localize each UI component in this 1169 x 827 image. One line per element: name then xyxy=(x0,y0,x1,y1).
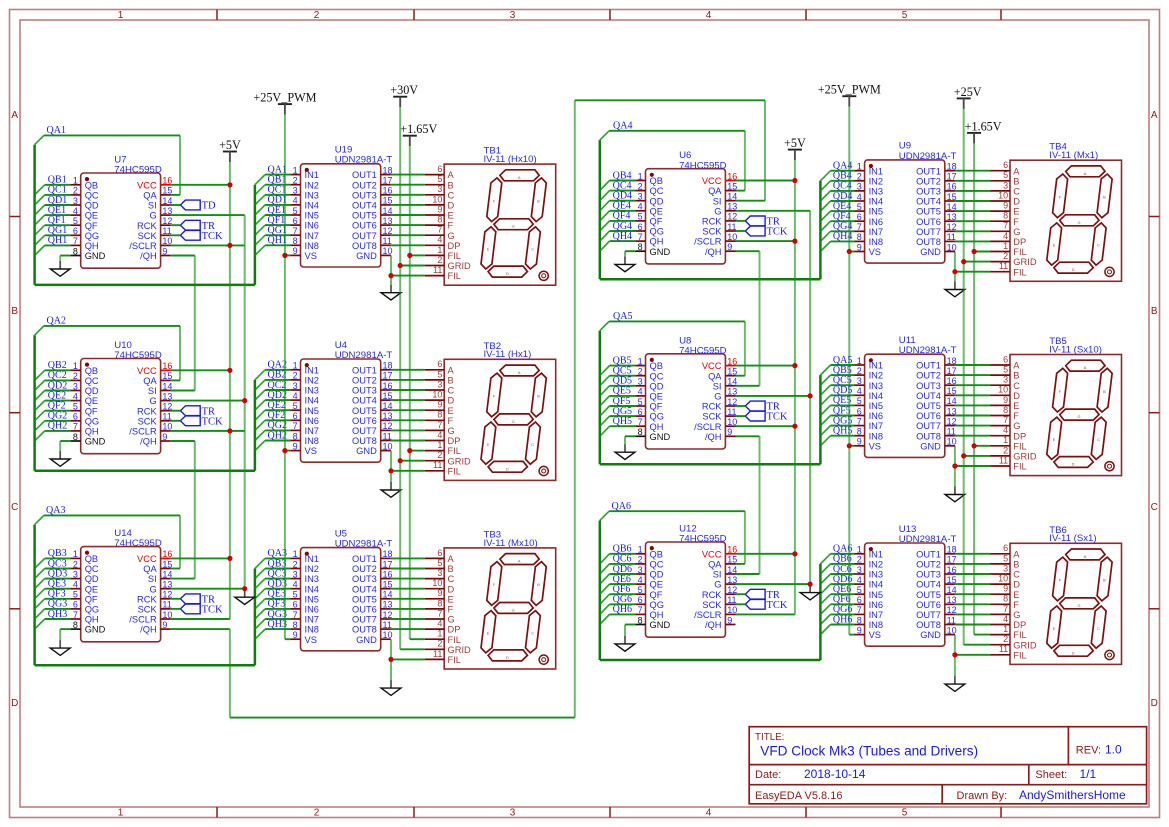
U9 pin names xyxy=(869,166,942,257)
svg-text:FIL: FIL xyxy=(448,466,461,476)
svg-text:DP: DP xyxy=(1013,620,1026,630)
U19 pin numbers xyxy=(293,165,393,256)
svg-text:VS: VS xyxy=(869,441,881,451)
wire U10 RCK to TR flag xyxy=(171,410,181,412)
wire net QE4 to U6 pin 4 xyxy=(600,211,636,221)
svg-text:7: 7 xyxy=(638,232,643,242)
svg-text:7: 7 xyxy=(1003,221,1008,231)
svg-text:+5V: +5V xyxy=(219,138,241,152)
svg-text:6: 6 xyxy=(73,226,78,236)
wire net QG4 to U9 IN7 xyxy=(820,231,854,241)
svg-text:OUT1: OUT1 xyxy=(916,361,941,371)
svg-text:FIL: FIL xyxy=(448,271,461,281)
svg-text:11: 11 xyxy=(383,236,392,246)
VFD tube TB6 IV-11 xyxy=(991,525,1122,665)
junction U12 VCC / +5V xyxy=(792,551,797,556)
svg-text:7: 7 xyxy=(638,417,643,427)
svg-text:QE: QE xyxy=(85,584,98,594)
svg-text:13: 13 xyxy=(727,575,737,585)
TB6 pins xyxy=(991,554,1011,655)
wire U11 OUT5 to TB5 xyxy=(955,404,991,406)
svg-text:7: 7 xyxy=(1003,604,1008,614)
svg-text:C: C xyxy=(448,386,455,396)
svg-text:TD: TD xyxy=(202,201,216,212)
svg-text:11: 11 xyxy=(433,649,442,659)
junction U4 VS / +25V_PWM xyxy=(282,448,287,453)
wire U5 OUT6 to TB3 xyxy=(391,608,425,610)
wire U8 G to G bus xyxy=(736,395,811,397)
svg-text:OUT5: OUT5 xyxy=(916,207,941,217)
svg-text:4: 4 xyxy=(857,386,862,396)
wire U11 OUT8 to TB5 xyxy=(955,435,991,437)
svg-text:IN1: IN1 xyxy=(869,166,883,176)
wire net QC1 to U19 IN3 xyxy=(255,195,291,205)
svg-text:GRID: GRID xyxy=(1013,257,1037,267)
svg-text:74HC595D: 74HC595D xyxy=(679,534,727,545)
svg-text:1: 1 xyxy=(437,245,442,255)
U8 body xyxy=(646,354,726,449)
svg-text:IV-11 (Sx10): IV-11 (Sx10) xyxy=(1049,344,1102,355)
wire net QE5 to U11 IN5 xyxy=(820,405,854,415)
wire TB4 GRID to +25V rail xyxy=(964,261,991,263)
wire net QF5 to U8 pin 5 xyxy=(600,406,636,416)
svg-text:OUT8: OUT8 xyxy=(352,436,377,446)
svg-text:IN5: IN5 xyxy=(305,594,319,604)
svg-text:4: 4 xyxy=(437,619,442,629)
svg-text:16: 16 xyxy=(727,171,737,181)
VFD tube TB2 IV-11 xyxy=(425,341,556,481)
junction U7 /SCLR / +5V xyxy=(227,243,232,248)
svg-text:14: 14 xyxy=(947,202,957,212)
svg-text:4: 4 xyxy=(437,430,442,440)
svg-text:SI: SI xyxy=(148,574,157,584)
svg-text:10: 10 xyxy=(162,610,172,620)
U12 pin names xyxy=(650,549,723,630)
U5 body xyxy=(301,548,381,651)
wire U8 SCK to TCK flag xyxy=(736,415,746,417)
wire net QA3 loop (label to QA pin, left bus, bottom run, fan riser) xyxy=(35,515,255,665)
junction U11 VS / +25V_PWM xyxy=(847,443,852,448)
net flag TCK at U6 SCK xyxy=(745,226,788,238)
svg-text:IN3: IN3 xyxy=(305,190,319,200)
wire U19 OUT1 to TB1 xyxy=(391,174,425,176)
junction TB2 FIL(11) / GND chain xyxy=(388,468,393,473)
TB4 pin numbers xyxy=(998,160,1008,271)
wire TB3 GRID to +30V rail xyxy=(400,648,425,650)
wire U11 OUT1 to TB5 xyxy=(955,364,991,366)
svg-text:8: 8 xyxy=(1003,405,1008,415)
U11 body xyxy=(865,354,945,457)
svg-text:IN2: IN2 xyxy=(869,560,883,570)
svg-text:7: 7 xyxy=(857,605,862,615)
TB5 seven-segment digit xyxy=(1047,360,1114,471)
svg-text:VCC: VCC xyxy=(702,176,722,186)
svg-text:OUT7: OUT7 xyxy=(916,227,941,237)
TB5 pin numbers xyxy=(998,354,1008,465)
svg-text:VS: VS xyxy=(305,635,317,645)
svg-text:QD: QD xyxy=(650,570,664,580)
svg-text:GND: GND xyxy=(920,630,941,640)
svg-text:F: F xyxy=(1013,411,1019,421)
svg-text:OUT8: OUT8 xyxy=(916,620,941,630)
wire net QD6 to U13 IN4 xyxy=(820,584,854,594)
wire net QD2 to U4 IN4 xyxy=(255,400,291,410)
svg-text:5: 5 xyxy=(293,401,298,411)
svg-text:15: 15 xyxy=(162,559,172,569)
wire net QA5 loop (label to QA pin, left bus, bottom run, fan riser) xyxy=(600,321,821,464)
ground at U19 GND xyxy=(381,276,401,300)
wire net QF2 to U4 IN6 xyxy=(255,420,291,430)
svg-text:IN1: IN1 xyxy=(305,170,319,180)
wire U11 OUT2 to TB5 xyxy=(955,374,991,376)
junction U7 VCC / +5V xyxy=(227,182,232,187)
svg-text:7: 7 xyxy=(293,421,298,431)
wire G bus vertical L xyxy=(244,215,246,589)
wire net QD4 to U6 pin 3 xyxy=(600,201,636,211)
svg-text:4: 4 xyxy=(293,391,298,401)
svg-text:10: 10 xyxy=(727,605,737,615)
svg-text:E: E xyxy=(487,442,490,447)
svg-text:QG: QG xyxy=(85,605,99,615)
svg-text:2: 2 xyxy=(1003,251,1008,261)
svg-text:SI: SI xyxy=(713,196,722,206)
wire U13 OUT3 to TB6 xyxy=(955,573,991,575)
wire net QF3 to U5 IN6 xyxy=(255,609,291,619)
svg-text:12: 12 xyxy=(947,416,957,426)
svg-text:C: C xyxy=(11,502,18,513)
svg-text:74HC595D: 74HC595D xyxy=(114,350,162,361)
wire TB6 GRID to +25V rail xyxy=(964,644,991,646)
svg-text:2: 2 xyxy=(857,555,862,565)
svg-text:C: C xyxy=(1097,626,1100,631)
svg-text:3: 3 xyxy=(510,10,516,21)
svg-text:QA: QA xyxy=(708,560,722,570)
svg-text:9: 9 xyxy=(1003,395,1008,405)
svg-text:B: B xyxy=(1103,578,1106,583)
svg-text:F: F xyxy=(1013,217,1019,227)
wire net QC2 to U10 pin 2 xyxy=(35,380,71,390)
svg-text:11: 11 xyxy=(162,600,171,610)
svg-text:G: G xyxy=(512,224,515,229)
wire U10 G to G bus xyxy=(171,400,245,402)
U14 pins xyxy=(71,558,171,629)
U6 pins xyxy=(635,181,735,252)
svg-text:FIL: FIL xyxy=(448,251,461,261)
svg-text:14: 14 xyxy=(383,206,393,216)
svg-text:QA: QA xyxy=(143,376,157,386)
wire U9 OUT1 to TB4 xyxy=(955,170,991,172)
svg-text:2: 2 xyxy=(1003,634,1008,644)
wire U5 GND to TB3 FIL(11) and ground xyxy=(391,639,425,660)
ground at U12 GND xyxy=(615,625,635,652)
U8 pins xyxy=(635,366,735,437)
wire U13 OUT5 to TB6 xyxy=(955,593,991,595)
svg-text:E: E xyxy=(448,594,454,604)
svg-text:10: 10 xyxy=(727,232,737,242)
svg-text:2: 2 xyxy=(293,559,298,569)
TB6 pin numbers xyxy=(998,543,1008,654)
svg-text:1: 1 xyxy=(1003,435,1008,445)
wire U10 /QH to U14 SI xyxy=(171,441,195,579)
svg-text:Drawn By:: Drawn By: xyxy=(957,790,1008,802)
svg-text:9: 9 xyxy=(857,242,862,252)
svg-text:6: 6 xyxy=(293,216,298,226)
wire net QH3 to U14 pin 7 xyxy=(35,619,71,629)
IC U10 74HC595D shift register xyxy=(71,340,173,454)
junction U6 /SCLR / +5V xyxy=(792,239,797,244)
wire U19 OUT7 to TB1 xyxy=(391,234,425,236)
svg-text:13: 13 xyxy=(383,216,393,226)
wire TB5 FIL(1) to +1.65V rail xyxy=(974,445,990,447)
svg-text:9: 9 xyxy=(857,625,862,635)
svg-text:E: E xyxy=(487,630,490,635)
junction TB2 FIL / +1.65V xyxy=(407,448,412,453)
svg-text:FIL: FIL xyxy=(1013,630,1026,640)
svg-text:B: B xyxy=(1103,389,1106,394)
svg-text:1: 1 xyxy=(73,361,78,371)
U4 pin names xyxy=(305,365,378,456)
svg-text:D: D xyxy=(1013,580,1020,590)
svg-text:3: 3 xyxy=(437,184,442,194)
svg-text:5: 5 xyxy=(857,396,862,406)
svg-text:11: 11 xyxy=(433,460,442,470)
wire net QG6 to U13 IN7 xyxy=(820,614,854,624)
wire net QE6 to U13 IN5 xyxy=(820,594,854,604)
wire U11 GND to TB5 FIL(11) and ground xyxy=(955,446,991,467)
svg-text:E: E xyxy=(1013,207,1019,217)
svg-text:B: B xyxy=(1151,306,1158,317)
svg-text:8: 8 xyxy=(638,615,643,625)
wire U19 VS to +25V_PWM rail xyxy=(285,254,291,256)
wire net QF1 to U7 pin 5 xyxy=(35,225,71,235)
svg-text:C: C xyxy=(531,247,534,252)
wire net QD5 to U11 IN4 xyxy=(820,395,854,405)
U4 body xyxy=(301,359,381,462)
svg-text:OUT3: OUT3 xyxy=(352,386,377,396)
svg-text:QH: QH xyxy=(650,422,664,432)
wire TB4 FIL(1) to +1.65V rail xyxy=(974,251,990,253)
svg-text:1: 1 xyxy=(1003,241,1008,251)
svg-text:A: A xyxy=(1084,365,1087,370)
wire U14 /QH to U6 SI (long route) xyxy=(171,100,765,717)
svg-text:RCK: RCK xyxy=(702,217,722,227)
svg-text:D: D xyxy=(448,396,455,406)
svg-text:16: 16 xyxy=(162,361,172,371)
svg-text:OUT6: OUT6 xyxy=(916,411,941,421)
svg-text:VS: VS xyxy=(869,247,881,257)
wire net QD5 to U8 pin 3 xyxy=(600,386,636,396)
svg-text:RCK: RCK xyxy=(137,594,157,604)
wire U5 OUT2 to TB3 xyxy=(391,568,425,570)
svg-text:74HC595D: 74HC595D xyxy=(114,538,162,549)
ground at U11 GND xyxy=(945,466,965,502)
svg-text:OUT7: OUT7 xyxy=(352,426,377,436)
svg-text:11: 11 xyxy=(999,261,1008,271)
svg-text:12: 12 xyxy=(947,222,957,232)
svg-text:IN5: IN5 xyxy=(869,401,883,411)
svg-text:2018-10-14: 2018-10-14 xyxy=(804,767,866,781)
junction TB5 GRID rail xyxy=(961,453,966,458)
svg-text:10: 10 xyxy=(162,422,172,432)
wire net QA6 loop (label to QA pin, left bus, bottom run, fan riser) xyxy=(600,511,821,660)
svg-text:QD: QD xyxy=(650,196,664,206)
TB4 pin names xyxy=(1013,166,1037,277)
svg-text:E: E xyxy=(448,211,454,221)
wire net QF6 to U12 pin 5 xyxy=(600,594,636,604)
svg-text:6: 6 xyxy=(437,548,442,558)
svg-text:GND: GND xyxy=(356,635,377,645)
U9 body xyxy=(865,160,945,263)
svg-text:FIL: FIL xyxy=(1013,462,1026,472)
+25V_PWM power rail R xyxy=(848,107,850,635)
svg-text:OUT8: OUT8 xyxy=(352,625,377,635)
wire U12 GND pin to ground xyxy=(625,624,635,626)
wire U4 OUT1 to TB2 xyxy=(391,369,425,371)
IC U8 74HC595D shift register xyxy=(635,335,737,449)
wire net QB1 to U19 IN2 xyxy=(255,185,291,195)
svg-text:A: A xyxy=(448,554,455,564)
IC U7 74HC595D shift register xyxy=(71,155,173,269)
svg-text:IN4: IN4 xyxy=(869,391,883,401)
wire TB6 FIL(1) to +1.65V rail xyxy=(974,634,990,636)
svg-text:4: 4 xyxy=(1003,231,1008,241)
U11 pin names xyxy=(869,361,942,452)
svg-text:4: 4 xyxy=(73,391,78,401)
svg-text:OUT4: OUT4 xyxy=(916,391,941,401)
svg-text:+25V: +25V xyxy=(954,85,982,99)
svg-text:9: 9 xyxy=(1003,201,1008,211)
svg-text:B: B xyxy=(448,564,454,574)
svg-text:8: 8 xyxy=(857,427,862,437)
svg-text:OUT2: OUT2 xyxy=(916,176,941,186)
svg-text:15: 15 xyxy=(727,555,737,565)
wire net QB2 to U10 pin 1 xyxy=(35,370,71,380)
svg-text:8: 8 xyxy=(73,620,78,630)
wire net QB3 to U5 IN2 xyxy=(255,569,291,579)
power flag +30V xyxy=(390,83,418,107)
TB5 pin names xyxy=(1013,361,1037,472)
svg-text:IN7: IN7 xyxy=(869,227,883,237)
svg-text:OUT5: OUT5 xyxy=(352,406,377,416)
svg-text:C: C xyxy=(448,574,455,584)
svg-text:E: E xyxy=(448,406,454,416)
svg-text:1: 1 xyxy=(118,808,124,819)
VFD tube TB5 IV-11 xyxy=(991,336,1122,476)
svg-text:6: 6 xyxy=(293,411,298,421)
svg-text:C: C xyxy=(1097,243,1100,248)
svg-text:SCK: SCK xyxy=(138,231,158,241)
svg-text:QE: QE xyxy=(650,206,663,216)
svg-text:VCC: VCC xyxy=(702,549,722,559)
svg-text:74HC595D: 74HC595D xyxy=(114,165,162,176)
svg-text:TCK: TCK xyxy=(767,600,788,611)
svg-text:GND: GND xyxy=(356,446,377,456)
svg-text:6: 6 xyxy=(857,595,862,605)
wire net QG2 to U10 pin 6 xyxy=(35,421,71,431)
svg-text:QF: QF xyxy=(85,594,98,604)
svg-text:IN8: IN8 xyxy=(305,436,319,446)
svg-text:5: 5 xyxy=(1003,365,1008,375)
svg-text:QA: QA xyxy=(708,186,722,196)
svg-text:4: 4 xyxy=(293,196,298,206)
svg-text:OUT3: OUT3 xyxy=(916,187,941,197)
svg-text:3: 3 xyxy=(638,565,643,575)
wire U13 OUT4 to TB6 xyxy=(955,583,991,585)
svg-text:QA6: QA6 xyxy=(612,501,631,512)
svg-text:IN3: IN3 xyxy=(869,187,883,197)
wire U11 OUT7 to TB5 xyxy=(955,425,991,427)
svg-text:11: 11 xyxy=(383,620,392,630)
svg-text:D: D xyxy=(506,271,509,276)
wire net QH6 to U12 pin 7 xyxy=(600,614,636,624)
wire net QB5 to U11 IN2 xyxy=(820,375,854,385)
svg-text:16: 16 xyxy=(727,545,737,555)
svg-text:E: E xyxy=(487,247,490,252)
svg-text:10: 10 xyxy=(947,625,957,635)
svg-text:17: 17 xyxy=(383,371,393,381)
TB3 body xyxy=(444,548,556,669)
svg-text:10: 10 xyxy=(432,194,442,204)
junction TB5 FIL(11) / GND chain xyxy=(952,463,957,468)
svg-text:5: 5 xyxy=(638,397,643,407)
svg-text:A: A xyxy=(1013,549,1020,559)
svg-text:VCC: VCC xyxy=(137,366,157,376)
svg-text:8: 8 xyxy=(638,427,643,437)
svg-text:B: B xyxy=(537,198,540,203)
wire net QB5 to U8 pin 1 xyxy=(600,366,636,376)
wire net QD6 to U12 pin 3 xyxy=(600,574,636,584)
svg-text:13: 13 xyxy=(947,212,957,222)
power flag +5V xyxy=(784,136,806,160)
svg-text:IN4: IN4 xyxy=(869,580,883,590)
svg-text:OUT3: OUT3 xyxy=(352,574,377,584)
svg-text:B: B xyxy=(537,582,540,587)
junction U14 G / G bus xyxy=(242,586,247,591)
svg-text:IN6: IN6 xyxy=(305,605,319,615)
U13 pins xyxy=(855,554,955,635)
svg-text:QB: QB xyxy=(85,180,98,190)
svg-text:UDN2981A-T: UDN2981A-T xyxy=(335,539,393,550)
svg-text:3: 3 xyxy=(73,569,78,579)
svg-text:9: 9 xyxy=(437,588,442,598)
IC U9 UDN2981A-T driver xyxy=(855,141,957,263)
svg-text:QB: QB xyxy=(650,549,663,559)
wire U10 GND pin to ground xyxy=(60,440,70,442)
net flag TR at U12 RCK xyxy=(745,589,780,601)
svg-text:FIL: FIL xyxy=(448,446,461,456)
svg-text:QH: QH xyxy=(85,241,99,251)
wire net QH2 to U4 IN8 xyxy=(255,441,291,451)
svg-text:FIL: FIL xyxy=(448,655,461,665)
svg-text:OUT1: OUT1 xyxy=(352,365,377,375)
junction TB5 FIL / +1.65V xyxy=(972,443,977,448)
svg-text:QF: QF xyxy=(650,402,663,412)
svg-text:14: 14 xyxy=(383,401,393,411)
svg-text:3: 3 xyxy=(1003,375,1008,385)
svg-text:G: G xyxy=(512,419,515,424)
junction U10 G / G bus xyxy=(242,398,247,403)
svg-text:2: 2 xyxy=(638,181,643,191)
svg-text:REV:: REV: xyxy=(1076,745,1101,757)
svg-text:OUT4: OUT4 xyxy=(916,197,941,207)
wire U19 OUT5 to TB1 xyxy=(391,214,425,216)
svg-text:3: 3 xyxy=(437,568,442,578)
svg-text:SI: SI xyxy=(148,386,157,396)
wire U19 OUT2 to TB1 xyxy=(391,184,425,186)
wire net QE5 to U8 pin 4 xyxy=(600,396,636,406)
TB1 seven-segment digit xyxy=(481,170,548,281)
svg-text:2: 2 xyxy=(638,555,643,565)
